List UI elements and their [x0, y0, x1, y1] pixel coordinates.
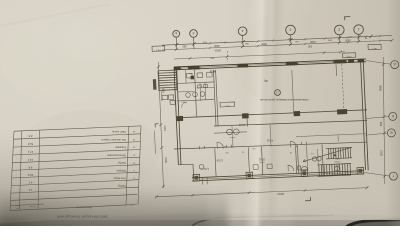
sanitary wc circles	[186, 93, 191, 98]
bottom wall window lines	[201, 177, 246, 179]
svg-text:Тамбур: Тамбур	[117, 184, 126, 187]
svg-text:м2: м2	[16, 207, 18, 209]
exterior stair right rail	[175, 70, 178, 91]
toilet ellipse bottom left room	[301, 166, 307, 170]
label box P3.1 left	[152, 46, 165, 52]
svg-text:3: 3	[289, 27, 291, 31]
axis3 wall above corridor	[246, 114, 249, 127]
room schedule table	[10, 126, 141, 219]
exterior stair treads	[158, 69, 176, 72]
svg-text:Площ.: Площ.	[14, 204, 20, 206]
staircase upper flight rails	[326, 148, 352, 149]
overall dim end ticks	[155, 195, 158, 198]
svg-text:1: 1	[357, 27, 359, 31]
table header top rule	[11, 194, 138, 200]
table header mid rule	[10, 204, 44, 206]
axis5 dashed duct line	[342, 64, 344, 110]
svg-text:02: 02	[241, 150, 244, 152]
door jamb ticks H3	[199, 146, 201, 149]
svg-text:20,61: 20,61	[258, 158, 265, 161]
svg-text:1930: 1930	[310, 40, 316, 43]
svg-text:Экспликация помещений: Экспликация помещений	[57, 214, 108, 219]
table horizontal rules	[14, 126, 141, 131]
axis4 wall in venkamera	[292, 70, 294, 113]
svg-text:Зал завешив. подвесн.: Зал завешив. подвесн.	[100, 138, 126, 141]
staircase lower flight rails	[318, 164, 352, 165]
svg-text:5640: 5640	[261, 42, 267, 45]
corner mark top right	[344, 16, 350, 18]
equipment boxes below stair	[162, 95, 168, 100]
grid axis bubble 2	[335, 25, 345, 35]
svg-text:№: №	[131, 204, 133, 207]
svg-text:Узел ввода: Узел ввода	[113, 176, 126, 179]
svg-text:4415: 4415	[209, 70, 215, 74]
row axis bubble Г	[389, 172, 397, 180]
svg-text:13: 13	[132, 138, 135, 140]
dimension line B	[162, 40, 392, 50]
table vertical rules	[10, 131, 14, 210]
H1 piers	[177, 116, 184, 121]
svg-text:1,9: 1,9	[310, 152, 314, 154]
door arc corridor right	[291, 141, 297, 147]
axis 1 stem wire	[358, 34, 360, 42]
sanitary divider V1	[195, 70, 197, 117]
left vertical dimension line	[158, 62, 163, 188]
svg-text:Электрощитовая: Электрощитовая	[107, 154, 126, 157]
label box LC1	[343, 53, 356, 58]
svg-text:060: 060	[287, 37, 291, 39]
right vertical dimension line	[383, 57, 385, 184]
svg-text:-: -	[16, 173, 17, 175]
table header bottom rule	[10, 205, 137, 211]
svg-text:960: 960	[379, 122, 383, 127]
top wall piers	[174, 66, 181, 70]
venkamera circled number 13	[275, 90, 281, 96]
sanitary stall boxes	[187, 73, 193, 78]
svg-text:4,34: 4,34	[203, 167, 208, 170]
svg-text:А: А	[393, 62, 396, 66]
right dim tick	[383, 175, 386, 178]
axis 2 stem wire	[338, 35, 340, 43]
grid axis bubble 1	[354, 25, 364, 35]
bottom exterior wall inner line	[192, 171, 364, 178]
svg-text:15,99: 15,99	[216, 158, 223, 161]
svg-text:03: 03	[289, 151, 292, 153]
main divider V3 double	[214, 70, 217, 126]
G mark left of plan	[155, 123, 159, 125]
left dim tick	[160, 146, 163, 149]
svg-text:1,9: 1,9	[28, 188, 32, 191]
right edge shade	[386, 0, 400, 226]
staircase arrow barbs	[303, 161, 306, 163]
sanitary shelf line	[177, 90, 194, 93]
svg-text:-: -	[16, 158, 17, 160]
svg-text:903: 903	[202, 41, 206, 43]
left wall step to bottom wall	[178, 163, 193, 166]
sanitary dark box	[191, 76, 195, 80]
axis 5 stem wire	[193, 37, 196, 49]
svg-text:2130: 2130	[379, 150, 383, 156]
exterior stair left rail	[157, 71, 160, 92]
floor plan group	[152, 17, 399, 201]
svg-text:ЛК.1: ЛК.1	[224, 104, 229, 106]
wc pair circles near stair	[312, 157, 316, 161]
dim tick axis 5	[192, 42, 195, 45]
svg-text:8,5: 8,5	[28, 134, 32, 138]
right dim tick	[383, 132, 386, 135]
staircase upper flight treads	[327, 149, 330, 159]
axis 3 stem wire	[290, 35, 293, 45]
corridor door jamb vertical x270	[270, 125, 271, 147]
room divider x262	[262, 147, 263, 175]
dim tick line B	[241, 45, 244, 48]
stub wire below stair	[161, 91, 163, 101]
right dim tick	[382, 63, 385, 66]
row axis line D wire	[364, 173, 389, 177]
svg-text:380: 380	[182, 45, 187, 48]
sanitary wall Hb	[177, 99, 214, 101]
door arc bottom room	[288, 165, 294, 171]
svg-text:17,1: 17,1	[27, 150, 33, 154]
right exterior wall	[361, 60, 366, 170]
extra chain ticks	[209, 42, 211, 44]
grid axis bubble 4	[238, 27, 247, 36]
dim tick line B	[357, 40, 360, 43]
row axis line A wire	[366, 61, 391, 65]
bottom-left corner shadow	[0, 130, 240, 226]
sanitary extra partition	[197, 86, 214, 89]
svg-text:4: 4	[241, 29, 243, 33]
top wall window lines	[181, 67, 188, 69]
svg-text:40,9: 40,9	[27, 173, 33, 177]
svg-text:Ф4]: Ф4]	[264, 79, 268, 82]
sanitary divider V2	[204, 82, 207, 100]
grid axis bubble 6	[173, 30, 180, 37]
svg-text:Кладовая: Кладовая	[115, 146, 126, 149]
svg-text:Коридор: Коридор	[116, 169, 126, 172]
row axis bubble Б	[389, 112, 397, 120]
sanitary wall Ha	[177, 82, 214, 84]
stair left wall	[322, 144, 323, 176]
svg-text:2105: 2105	[164, 157, 168, 163]
right dim tick	[383, 115, 386, 118]
overall dimension line bottom	[156, 188, 369, 197]
svg-text:4930: 4930	[214, 44, 220, 47]
H3 tick pair right	[301, 142, 303, 145]
dim tick axis 1	[357, 35, 360, 38]
svg-text:18,85: 18,85	[238, 123, 245, 127]
bottom-left edge band	[0, 192, 228, 232]
dim tick line B	[391, 39, 394, 42]
stub line left of plan	[154, 131, 155, 155]
svg-text:2: 2	[338, 27, 340, 31]
label box ZV1 right	[368, 44, 381, 50]
svg-text:Тамб. выход: Тамб. выход	[112, 130, 126, 133]
overall dim intermediate ticks	[192, 194, 195, 197]
dim tick axis 2	[338, 36, 341, 39]
door arc corridor left	[217, 142, 224, 149]
corridor door jamb vertical x232	[232, 126, 233, 148]
grid axis bubble 3	[286, 25, 296, 35]
furniture rect bottom room 1	[253, 165, 258, 170]
svg-text:81,8: 81,8	[27, 142, 33, 146]
dim tick line B	[175, 48, 178, 51]
dimension line A	[162, 36, 392, 46]
dim tick axis 6	[175, 43, 178, 46]
svg-text:14: 14	[132, 130, 135, 132]
svg-text:мойка: мойка	[229, 136, 236, 139]
top exterior wall inner line	[174, 62, 366, 70]
top exterior wall outer line	[174, 59, 366, 67]
row axis bubble А	[391, 61, 399, 69]
svg-text:Тамбур: Тамбур	[117, 161, 126, 164]
svg-text:8: 8	[133, 177, 135, 179]
washbasin circles mid	[227, 129, 233, 135]
faint diagonal crease top-left	[0, 4, 110, 26]
sanitary divider V2b	[185, 70, 188, 84]
staircase direction dot	[334, 154, 336, 156]
svg-text:40,93: 40,93	[266, 139, 273, 142]
svg-text:19620: 19620	[277, 192, 285, 195]
dim tick axis 3	[289, 38, 292, 41]
svg-text:060: 060	[244, 42, 248, 44]
subtle paper mottling	[20, 110, 160, 190]
svg-text:ОЗ: ОЗ	[252, 147, 256, 149]
corridor wall H2	[214, 121, 367, 127]
axis 6 stem wire	[175, 37, 178, 50]
centre fold band	[243, 0, 286, 234]
stair mid landing wall	[317, 149, 320, 165]
svg-text:16010: 16010	[214, 48, 221, 51]
exit door ticks bottom wall	[202, 178, 204, 185]
shadow curve of curled paper edge	[192, 215, 334, 226]
cistern box	[298, 166, 301, 170]
svg-text:09: 09	[349, 35, 352, 37]
svg-text:Г: Г	[392, 174, 394, 178]
staircase direction line	[303, 147, 351, 161]
circled number right block	[335, 166, 340, 171]
svg-text:ЗВ.1: ЗВ.1	[372, 47, 377, 49]
svg-text:Б: Б	[392, 114, 394, 118]
short wall stub x336	[335, 64, 338, 76]
grid axis bubble 5	[190, 30, 198, 38]
svg-text:Наименование: Наименование	[75, 206, 92, 209]
row axis bubble В	[387, 129, 395, 137]
svg-text:1930: 1930	[345, 39, 351, 42]
corridor stub x338	[337, 135, 339, 141]
bottom darker wash on paper	[0, 128, 400, 220]
corridor mid line H2b	[296, 134, 367, 137]
svg-text:клад.: клад.	[259, 161, 265, 163]
dimension line C	[174, 52, 345, 59]
svg-text:9: 9	[133, 169, 135, 171]
svg-text:6: 6	[175, 31, 177, 35]
svg-text:3960: 3960	[378, 85, 382, 91]
svg-text:5: 5	[192, 31, 194, 35]
svg-text:830: 830	[307, 44, 312, 47]
svg-text:903: 903	[327, 38, 331, 40]
interior wall H1 sanitary/venkamera	[177, 110, 367, 118]
svg-text:№ пом.: № пом.	[29, 205, 36, 208]
corner mark bottom	[305, 200, 311, 202]
sub wall H4	[214, 132, 247, 133]
hatched post left of stair	[153, 79, 157, 90]
dim tick line B	[289, 43, 292, 46]
room divider x296 double	[296, 145, 297, 173]
axis 4 stem wire	[242, 36, 245, 48]
svg-text:13: 13	[276, 90, 279, 93]
dim tick line B	[338, 41, 341, 44]
svg-text:-: -	[17, 142, 18, 144]
svg-text:4415: 4415	[163, 125, 167, 131]
dashed stub above top wall	[226, 51, 229, 62]
svg-text:11: 11	[132, 154, 135, 156]
svg-text:4,8: 4,8	[28, 166, 32, 170]
sanitary divider V2c	[199, 84, 202, 102]
left dim tick	[157, 65, 160, 68]
svg-text:4,7: 4,7	[28, 181, 32, 185]
svg-text:140: 140	[294, 40, 298, 42]
left dim tick	[162, 185, 165, 188]
dim tick right end	[369, 35, 372, 38]
bottom exterior wall outer line	[192, 174, 364, 181]
label box LK1	[220, 102, 235, 107]
sanitary tiny boxes	[198, 85, 202, 88]
light zone right of bottom-left fold	[207, 183, 292, 230]
svg-text:14,1: 14,1	[27, 158, 33, 162]
svg-text:В: В	[390, 130, 392, 134]
row axis line B wire	[365, 117, 389, 119]
H3 tick pair left	[226, 145, 228, 148]
svg-text:ПЗ.1: ПЗ.1	[155, 48, 161, 50]
left dim tick	[160, 123, 163, 126]
corridor wall H3	[174, 142, 367, 149]
row axis line C wire	[366, 133, 388, 135]
svg-text:12: 12	[132, 146, 135, 148]
svg-text:ввода: ввода	[334, 160, 341, 162]
furniture rect bottom room 2	[267, 164, 272, 169]
paper bottom crease band	[250, 206, 400, 216]
svg-text:помещение венткамеры укрытие: помещение венткамеры укрытие на	[260, 98, 309, 102]
bottom wall column boxes	[193, 174, 200, 181]
paper edge shade	[0, 214, 400, 224]
staircase lower flight treads	[318, 165, 321, 177]
svg-text:ФЗ: ФЗ	[225, 151, 229, 154]
dim tick axis 4	[242, 40, 245, 43]
left exterior wall	[174, 67, 178, 165]
desk surface below paper	[0, 200, 400, 226]
axis3 wall below corridor	[248, 148, 249, 173]
sanitary door arc	[182, 102, 188, 108]
room divider x307	[307, 145, 308, 173]
dim ticks line C	[189, 57, 192, 60]
room divider x215	[215, 148, 216, 177]
svg-text:10: 10	[132, 161, 135, 163]
svg-text:ЛЦ.1: ЛЦ.1	[346, 55, 352, 57]
